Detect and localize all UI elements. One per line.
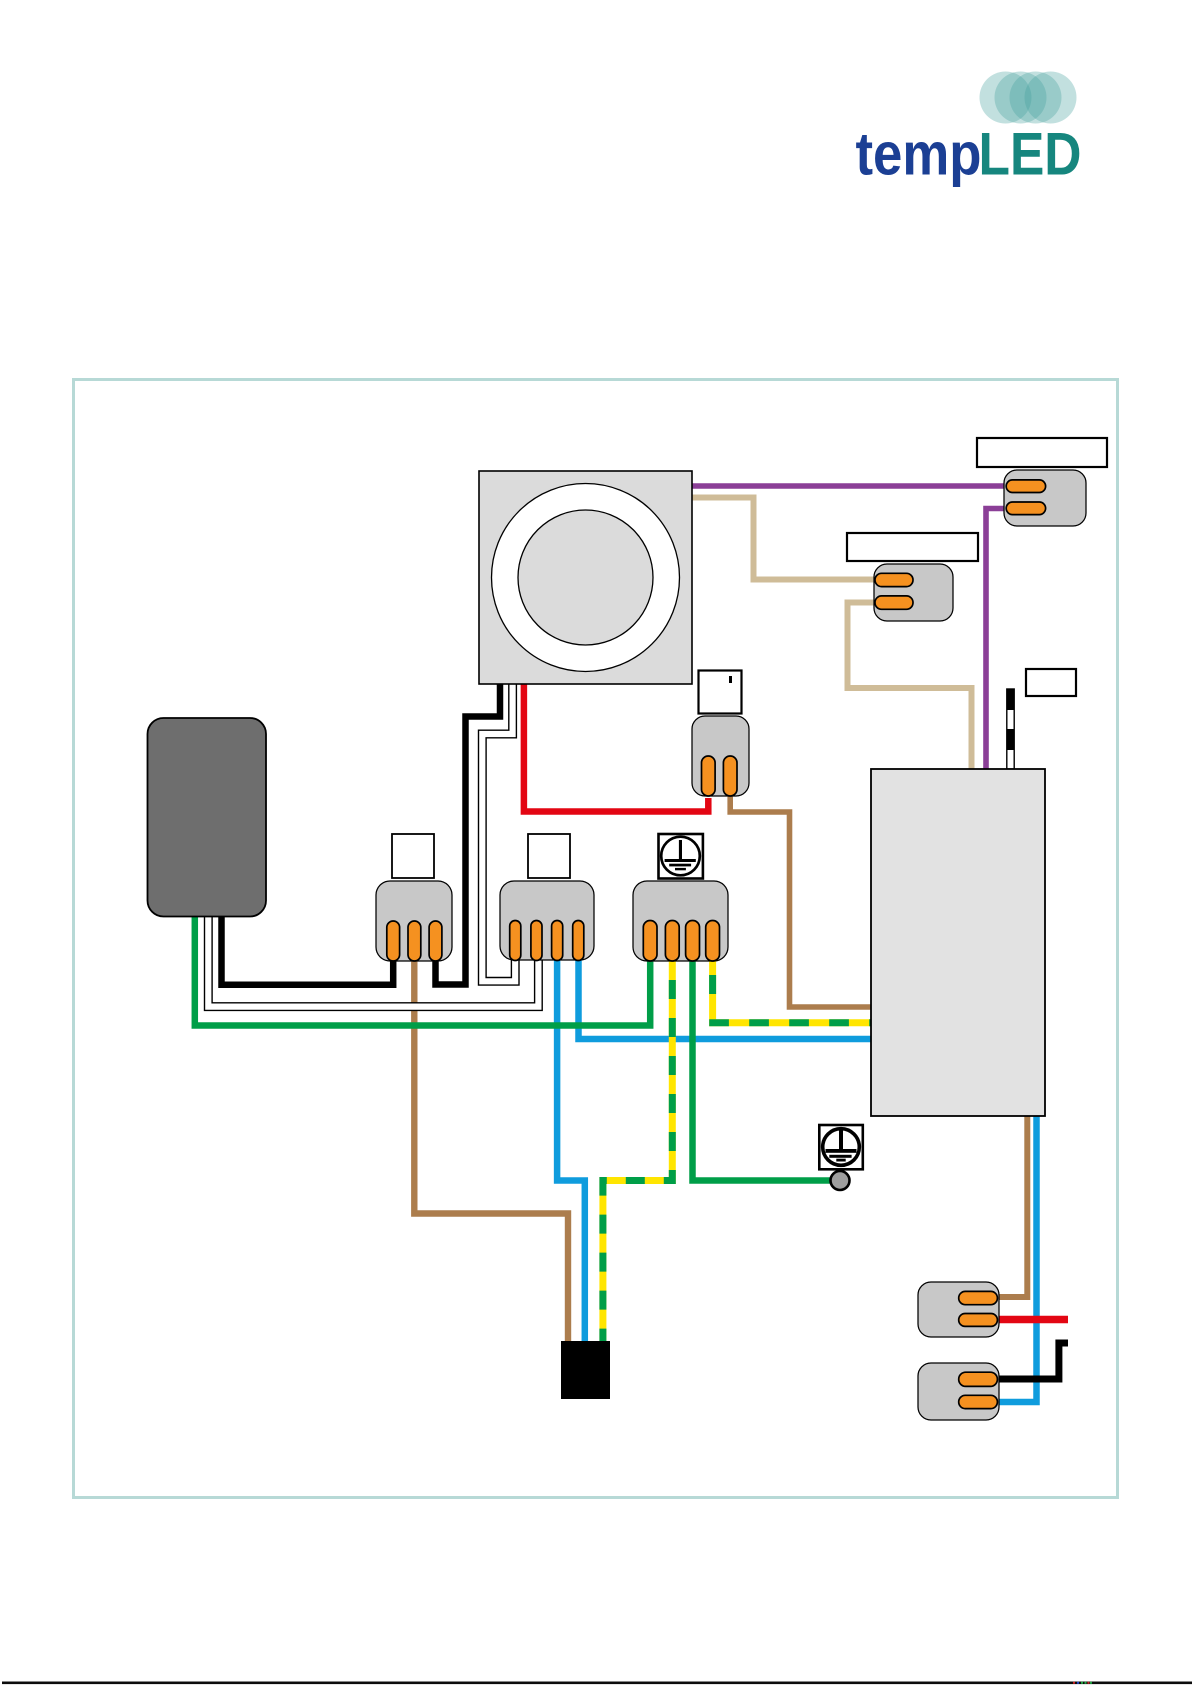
- wire blue A (connector X2 pin3 to cable gland): [557, 955, 585, 1345]
- wire tan 1 (LED panel to connector K2 pin1): [692, 498, 878, 580]
- connector K1 pin2: [1006, 502, 1045, 515]
- connector K4 pin1: [959, 1291, 998, 1304]
- wire dashed black-white dashes: [1007, 689, 1014, 769]
- svg-text:LED: LED: [979, 121, 1082, 188]
- wire green C (connector X3 pin3 to earth point): [693, 955, 839, 1181]
- connector X3 pin4: [706, 921, 720, 962]
- connector K5 (2-pin, bottom right lower) body: [918, 1363, 999, 1420]
- connector K3 (2-pin, vertical) body: [692, 716, 749, 796]
- label box X1: [392, 834, 434, 878]
- connector K5 pin2: [959, 1395, 998, 1408]
- wire green-yellow B dashes horizontal: [709, 1019, 871, 1026]
- label box driver (small): [1026, 669, 1076, 696]
- connector K2 pin2: [875, 596, 913, 609]
- svg-text:temp: temp: [856, 121, 982, 188]
- connector X1 pin1: [387, 921, 400, 961]
- connector X2 pin3: [552, 921, 563, 961]
- label box K1: [977, 438, 1107, 467]
- label box K3: [699, 671, 742, 714]
- connector K1 (2-pin, top right) body: [1004, 470, 1086, 526]
- wire green-yellow B dashes vertical: [709, 955, 716, 1010]
- connector K5 pin1: [959, 1372, 998, 1386]
- wire red (LED panel to 2-pin connector K3 pin1): [524, 684, 708, 812]
- wire green-yellow A (connector X3 pin2 to cable gland) base: [603, 955, 672, 1345]
- connector X2 pin4: [573, 921, 584, 961]
- wire black (sensor to connector X1 pin1): [222, 916, 394, 985]
- wire green-yellow A dashes: [603, 955, 672, 1345]
- wire tan 2 (connector K2 pin2 to driver top): [848, 603, 972, 770]
- label box K2: [847, 533, 978, 561]
- diagram frame: [74, 380, 1118, 1498]
- wire white (LED panel to connector X2 pin1) outline: [482, 684, 515, 981]
- connector X1 pin2: [408, 921, 421, 961]
- earth label box X3: [659, 834, 703, 879]
- logo bubbles: [980, 72, 1077, 124]
- wire dashed black-white (mains in, above driver) outline: [1007, 689, 1014, 769]
- connector K2 (2-pin, mid right) body: [874, 564, 953, 621]
- wire purple 1 (LED panel to connector K1 pin1): [692, 483, 1010, 489]
- wire red stub (connector K4 pin2): [999, 1316, 1068, 1324]
- cable gland (black box): [561, 1341, 610, 1399]
- wire purple 2 (connector K1 pin2 down to driver top): [986, 509, 1008, 770]
- label box X2: [528, 834, 570, 878]
- footer tiny colored marks: [1073, 1682, 1092, 1684]
- connector X3 pin2: [665, 921, 679, 962]
- wire black stub (connector K5 pin1): [999, 1343, 1068, 1379]
- label box K3 tick: [729, 676, 732, 683]
- connector X3 (4-pin earth) body: [633, 881, 728, 961]
- connector K3 pin1: [702, 756, 716, 796]
- wire blue B (connector X2 pin4 to driver left): [579, 955, 872, 1039]
- wire black (LED panel to connector X1 pin3): [436, 684, 501, 985]
- connector K4 (2-pin, bottom right upper) body: [918, 1282, 999, 1337]
- connector K3 pin2: [723, 756, 737, 796]
- wire blue C (driver bottom to connector K5 pin2): [999, 1116, 1037, 1402]
- earth symbol at driver: [819, 1125, 863, 1169]
- connector K1 pin1: [1006, 480, 1045, 493]
- connector X1 (3-pin) body: [376, 881, 452, 961]
- wire green (sensor to connector X3 pin1): [195, 916, 650, 1026]
- wire brown A (connector K3 pin2 to driver left): [730, 796, 871, 1007]
- wire white (LED panel to connector X2 pin1) core: [482, 684, 515, 981]
- wire brown C (driver bottom to connector K4 pin1): [999, 1116, 1027, 1297]
- connector X2 pin1: [510, 921, 521, 961]
- wire white (sensor to connector X2 pin2) outline: [208, 916, 538, 1007]
- connector K4 pin2: [959, 1314, 998, 1327]
- earth point dot: [831, 1171, 850, 1190]
- wire brown B (connector X1 pin2 to cable gland): [414, 958, 568, 1345]
- LED panel: [479, 471, 692, 684]
- connector X2 (4-pin) body: [500, 881, 594, 960]
- connector X3 pin3: [686, 921, 700, 962]
- connector K2 pin1: [875, 573, 913, 586]
- sensor: [148, 718, 267, 917]
- driver: [871, 769, 1045, 1116]
- connector X3 pin1: [643, 921, 657, 962]
- footer rule: [2, 1682, 1192, 1685]
- wire green-yellow B (connector X3 pin4 to driver left) base: [709, 955, 871, 1026]
- wire white (sensor to connector X2 pin2) core: [208, 916, 538, 1007]
- connector X1 pin3: [429, 921, 442, 961]
- connector X2 pin2: [531, 921, 542, 961]
